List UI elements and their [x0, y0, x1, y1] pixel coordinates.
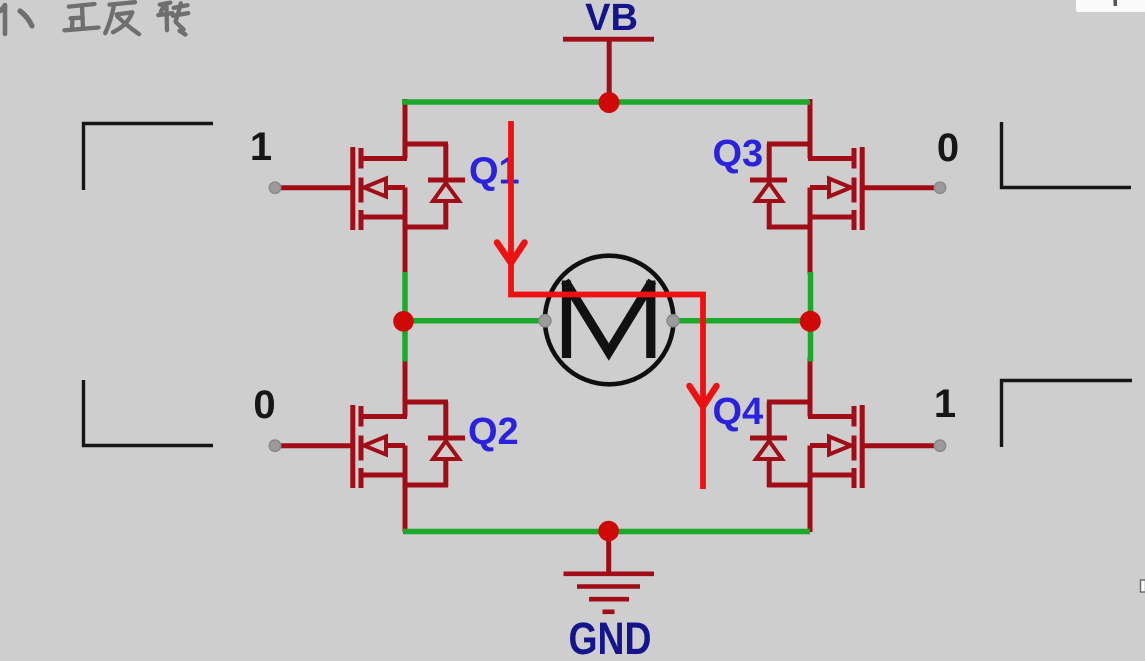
- svg-text:GND: GND: [569, 614, 652, 661]
- svg-text:VB: VB: [585, 0, 638, 39]
- svg-text:1: 1: [250, 125, 272, 169]
- svg-text:0: 0: [937, 126, 959, 170]
- svg-text:Q2: Q2: [468, 411, 519, 453]
- svg-text:0: 0: [253, 383, 275, 427]
- svg-text:Q3: Q3: [713, 133, 764, 175]
- svg-text:1: 1: [934, 382, 956, 426]
- svg-text:Q4: Q4: [713, 391, 764, 433]
